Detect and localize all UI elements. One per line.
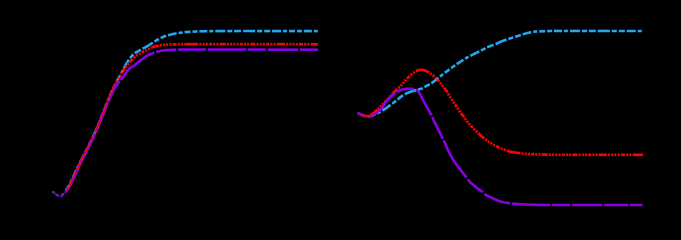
left panel purple long-dash curve (series 3) faint start tail bbox=[53, 185, 70, 196]
right panel red dotted curve (series 2) bbox=[358, 70, 644, 155]
right panel blue dashed curve (series 1) bbox=[358, 31, 644, 117]
left panel blue dashed curve (series 1) faint start tail bbox=[53, 185, 70, 196]
left panel purple long-dash curve (series 3) bbox=[67, 50, 318, 191]
left panel red dotted curve (series 2) merged-rise overlay bbox=[67, 88, 114, 191]
right panel purple long-dash curve (series 3) bbox=[358, 89, 643, 205]
right panel red dotted curve (series 2) start overlay bbox=[362, 109, 378, 116]
left panel red dotted curve (series 2) faint start tail bbox=[53, 185, 70, 196]
left panel red dotted curve (series 2) bbox=[67, 44, 319, 191]
left panel blue dashed curve (series 1) bbox=[66, 31, 318, 190]
